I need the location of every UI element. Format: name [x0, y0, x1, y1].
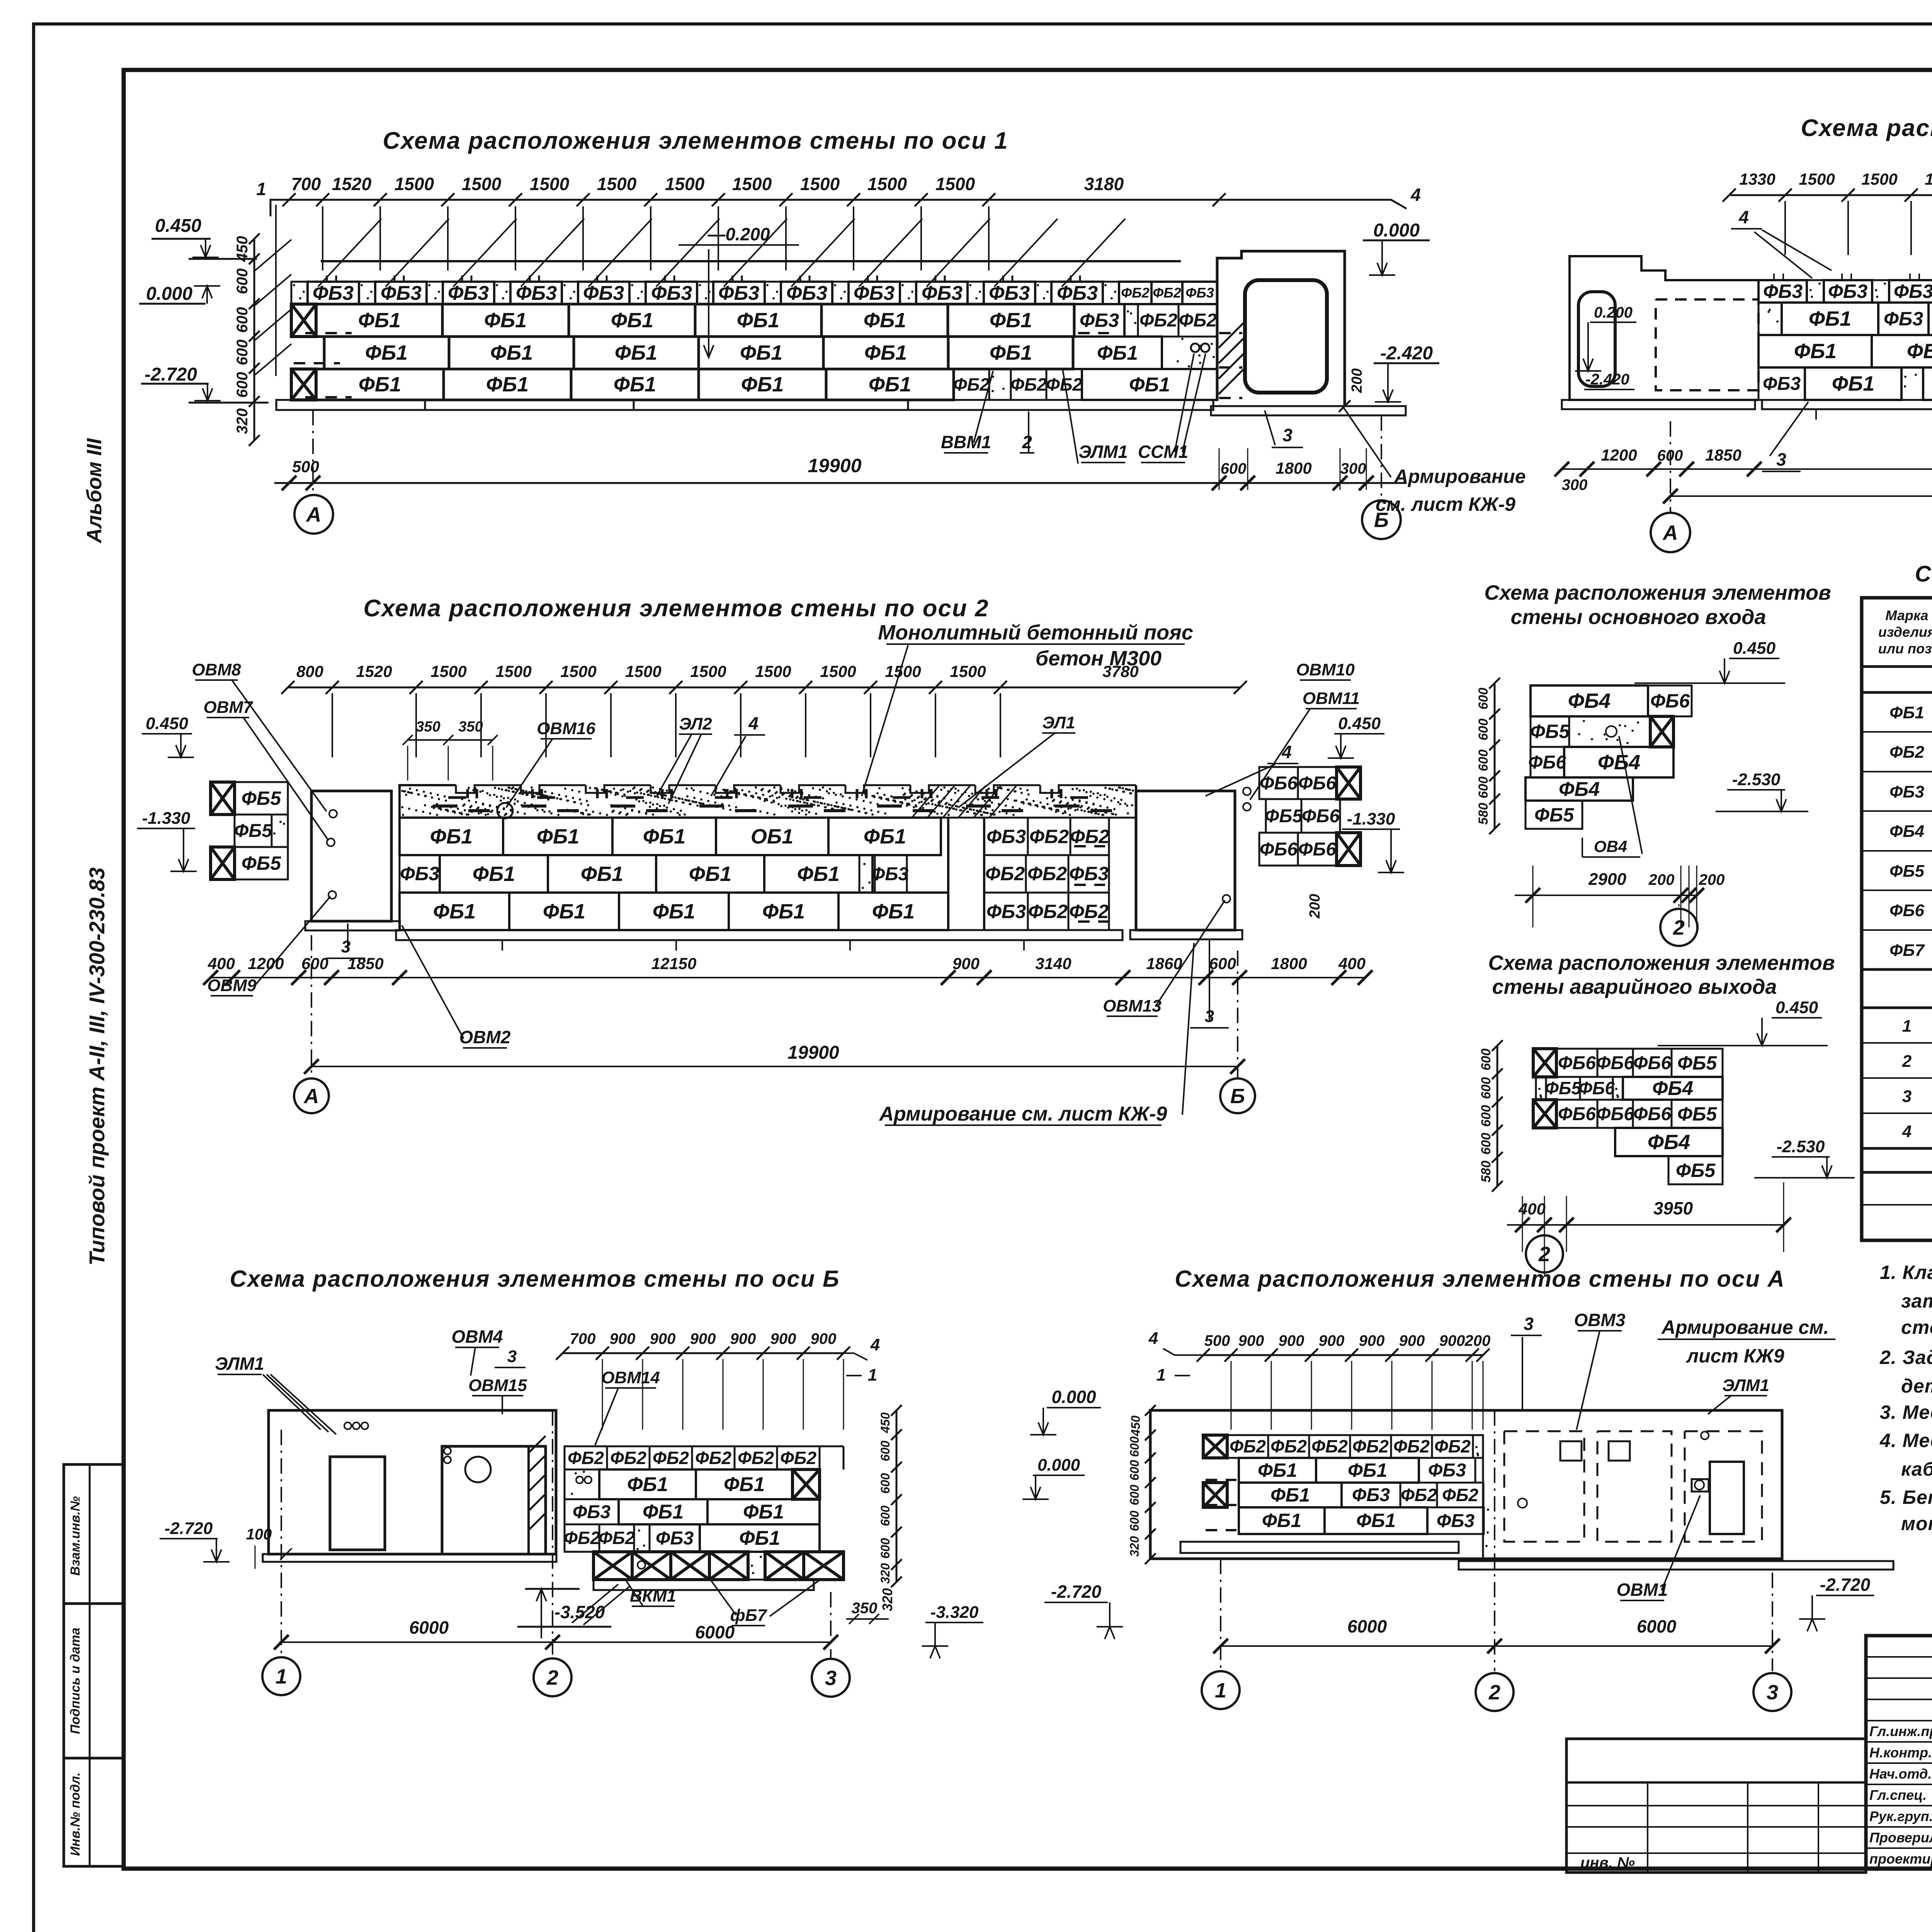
svg-text:500: 500: [292, 457, 319, 476]
svg-text:см. лист КЖ-9: см. лист КЖ-9: [1376, 493, 1515, 515]
axisA left ladder: [1150, 1410, 1151, 1559]
svg-text:ОВ4: ОВ4: [1594, 837, 1627, 855]
svg-text:200: 200: [1648, 871, 1675, 888]
emergency exit bottom dims: [1507, 1224, 1785, 1226]
svg-text:ЭЛМ1: ЭЛМ1: [1722, 1376, 1769, 1395]
svg-text:0.450: 0.450: [1338, 714, 1381, 733]
svg-text:2: 2: [1673, 916, 1685, 939]
svg-text:1520: 1520: [356, 662, 392, 680]
svg-text:Подпись и дата: Подпись и дата: [68, 1628, 83, 1734]
axis1 left ladder: [253, 239, 255, 440]
svg-text:ФБ5: ФБ5: [1265, 806, 1303, 827]
svg-text:ФБ3: ФБ3: [1894, 281, 1932, 302]
svg-text:ФБ2: ФБ2: [610, 1448, 646, 1468]
svg-text:ФБ3: ФБ3: [1057, 282, 1098, 304]
svg-text:ФБ2: ФБ2: [1069, 901, 1109, 922]
svg-text:350: 350: [416, 719, 440, 735]
svg-text:Гл.спец.: Гл.спец.: [1869, 1787, 1927, 1803]
svg-text:3: 3: [341, 937, 350, 956]
svg-text:ССМ1: ССМ1: [1138, 442, 1188, 462]
svg-text:320: 320: [1128, 1536, 1141, 1557]
svg-text:ФБ5: ФБ5: [241, 852, 281, 874]
svg-text:ФБ3: ФБ3: [854, 282, 895, 304]
svg-text:100: 100: [246, 1526, 272, 1543]
svg-text:ФБ3: ФБ3: [516, 282, 557, 304]
svg-text:кабелей через наружные: кабелей через наружные стены при привязк…: [1901, 1458, 1932, 1480]
svg-text:1500: 1500: [1799, 170, 1835, 188]
svg-text:320: 320: [878, 1563, 892, 1584]
svg-text:ФБ1: ФБ1: [1356, 1510, 1396, 1531]
svg-text:1520: 1520: [332, 174, 372, 194]
axis3 row A: [1759, 303, 1782, 335]
svg-text:ФБ5: ФБ5: [1677, 1103, 1717, 1125]
svg-text:1500: 1500: [800, 174, 840, 194]
table horizontals: [1862, 665, 1932, 668]
svg-text:Армирование см.: Армирование см.: [1661, 1316, 1829, 1338]
svg-text:ФБ2: ФБ2: [1311, 1436, 1348, 1456]
svg-text:3: 3: [507, 1347, 517, 1366]
svg-text:-2.720: -2.720: [1051, 1582, 1102, 1602]
svg-text:900: 900: [811, 1330, 837, 1347]
svg-text:ФБ3: ФБ3: [718, 282, 759, 304]
svg-text:ФБ3: ФБ3: [1884, 308, 1923, 330]
axis1 row B FB1 blocks: [324, 337, 449, 369]
svg-text:ФБ3: ФБ3: [656, 1528, 694, 1549]
svg-text:ФБ3: ФБ3: [1763, 374, 1801, 394]
svg-text:900: 900: [1399, 1332, 1425, 1349]
svg-text:ФБ5: ФБ5: [1889, 862, 1925, 881]
svg-text:1200: 1200: [248, 954, 284, 973]
axis3 left entrance structure plan: [1570, 256, 1759, 400]
svg-text:ЭЛМ1: ЭЛМ1: [215, 1354, 264, 1374]
axisB base line left: [263, 1554, 556, 1562]
svg-text:ФБ1: ФБ1: [864, 341, 907, 364]
svg-text:ФБ6: ФБ6: [1298, 839, 1336, 860]
svg-text:ФБ1: ФБ1: [473, 862, 515, 886]
axis1 axis mark 1 top-left: [270, 200, 289, 216]
svg-text:900: 900: [1319, 1332, 1345, 1349]
svg-text:0.000: 0.000: [146, 284, 192, 304]
svg-text:Спецификация элементов к схе: Спецификация элементов к схемам располож…: [1915, 561, 1932, 587]
svg-text:1. Кладка стен из сборных б: 1. Кладка стен из сборных блоков ведется…: [1880, 1262, 1932, 1283]
svg-text:Нач.отд.: Нач.отд.: [1869, 1766, 1932, 1782]
axis3 dim 19900: [1670, 495, 1932, 497]
svg-text:900: 900: [610, 1330, 636, 1347]
svg-text:900: 900: [1359, 1332, 1385, 1349]
svg-text:ФБ1: ФБ1: [797, 862, 840, 886]
svg-text:ФБ2: ФБ2: [1230, 1436, 1266, 1456]
axis1 right lower plate: [1211, 406, 1406, 415]
axis3 drop lines: [1784, 201, 1786, 255]
svg-text:ФБ1: ФБ1: [1832, 372, 1874, 395]
svg-text:2. Заделки по месту в стена: 2. Заделки по месту в стенах и отверстия…: [1879, 1347, 1932, 1368]
axis2 bottom dims: [211, 977, 1365, 978]
svg-text:900: 900: [1279, 1332, 1304, 1349]
svg-text:ФБ6: ФБ6: [1302, 806, 1340, 827]
svg-text:ФБ3: ФБ3: [448, 282, 489, 304]
axisA blocks: [1203, 1435, 1227, 1458]
svg-text:-1.330: -1.330: [1347, 810, 1395, 828]
svg-text:600: 600: [1479, 1133, 1493, 1155]
axis1 base plate: [276, 400, 1213, 410]
svg-text:1500: 1500: [495, 662, 531, 680]
svg-text:1500: 1500: [820, 662, 856, 680]
svg-text:ФБ3: ФБ3: [583, 282, 624, 304]
svg-text:ФБ1: ФБ1: [358, 309, 401, 332]
svg-text:ФБ3: ФБ3: [313, 282, 354, 304]
axis1 door opening right end: [1216, 261, 1219, 400]
svg-text:1860: 1860: [1146, 954, 1182, 973]
svg-text:320: 320: [879, 1588, 895, 1611]
svg-text:600: 600: [1476, 750, 1491, 772]
svg-text:ФБ1: ФБ1: [724, 1473, 765, 1496]
svg-text:1850: 1850: [1705, 446, 1741, 464]
svg-text:ЭЛ1: ЭЛ1: [1042, 713, 1075, 732]
belt hatched part: [912, 786, 939, 818]
svg-text:600: 600: [878, 1505, 892, 1526]
svg-text:ФБ1: ФБ1: [1348, 1459, 1387, 1481]
svg-text:ФБ4: ФБ4: [1648, 1131, 1690, 1154]
svg-text:ФБ2: ФБ2: [564, 1528, 600, 1548]
svg-text:ФБ1: ФБ1: [1097, 342, 1138, 364]
svg-text:600: 600: [234, 307, 251, 333]
axis2 row3: [400, 893, 509, 930]
svg-text:ОБ1: ОБ1: [751, 825, 793, 848]
svg-text:3: 3: [825, 1667, 837, 1690]
svg-text:4: 4: [870, 1335, 880, 1354]
belt dashes and vertical tick pairs: [433, 804, 457, 808]
svg-text:Армирование см. лист КЖ-9: Армирование см. лист КЖ-9: [879, 1103, 1167, 1125]
svg-text:ФБ1: ФБ1: [741, 373, 784, 396]
svg-text:ФБ2: ФБ2: [780, 1448, 816, 1468]
svg-text:ОВМ13: ОВМ13: [1103, 997, 1162, 1015]
svg-text:200: 200: [1349, 368, 1365, 393]
svg-text:800: 800: [296, 662, 323, 680]
axisA bottom dims 6000 6000: [1221, 1645, 1772, 1647]
axis1 hatch leaders: [318, 219, 381, 287]
svg-text:1: 1: [276, 1665, 287, 1688]
axis2 top dimension chain: [288, 687, 1240, 689]
svg-text:изделия: изделия: [1878, 624, 1932, 640]
svg-text:4: 4: [1738, 207, 1749, 227]
svg-text:2: 2: [1902, 1052, 1912, 1071]
axisA wall outline: [1150, 1410, 1782, 1559]
svg-text:ФБ3: ФБ3: [400, 863, 439, 884]
svg-text:ФБ1: ФБ1: [1129, 374, 1170, 396]
svg-text:ФБ5: ФБ5: [1677, 1052, 1717, 1074]
svg-text:3950: 3950: [1653, 1198, 1693, 1218]
svg-text:ОВМ10: ОВМ10: [1296, 660, 1355, 679]
svg-text:300: 300: [1562, 476, 1588, 493]
svg-text:ФБ3: ФБ3: [1352, 1485, 1390, 1505]
svg-text:3780: 3780: [1102, 662, 1138, 680]
svg-text:900: 900: [1238, 1332, 1264, 1349]
svg-text:ОВМ7: ОВМ7: [203, 698, 253, 717]
svg-text:-2.530: -2.530: [1732, 770, 1781, 789]
svg-text:1500: 1500: [935, 174, 975, 194]
svg-text:инв. №: инв. №: [1580, 1854, 1635, 1871]
svg-text:ФБ5: ФБ5: [241, 787, 281, 809]
svg-text:600: 600: [234, 340, 251, 366]
axis1 roof line: [321, 260, 1181, 262]
axisA axis bubbles 1 2 3: [1220, 1559, 1221, 1669]
svg-text:ФБ2: ФБ2: [985, 863, 1025, 884]
emergency exit axis bubble 2: [1526, 1235, 1563, 1272]
svg-text:ФБ3: ФБ3: [1763, 281, 1803, 302]
svg-text:ФБ1: ФБ1: [643, 825, 685, 848]
svg-text:1: 1: [1156, 1366, 1166, 1384]
svg-text:-2.420: -2.420: [1380, 343, 1433, 364]
svg-text:ФБ5: ФБ5: [234, 821, 272, 841]
axis2 small dims 350 350: [408, 739, 493, 741]
svg-text:1500: 1500: [560, 662, 596, 680]
axis1 axis mark 4 top-right: [1364, 200, 1406, 209]
svg-text:ВВМ1: ВВМ1: [941, 432, 991, 452]
svg-text:ФБ1: ФБ1: [1889, 703, 1924, 722]
svg-text:ФБ1: ФБ1: [433, 900, 476, 923]
svg-text:600: 600: [1128, 1436, 1141, 1457]
axis1 left hatch strokes: [275, 205, 277, 376]
svg-text:0.450: 0.450: [1776, 998, 1818, 1017]
svg-text:-2.720: -2.720: [1820, 1575, 1871, 1595]
svg-text:ФБ1: ФБ1: [1794, 340, 1837, 363]
svg-text:ФБ5: ФБ5: [1676, 1160, 1716, 1181]
svg-text:600: 600: [1476, 688, 1491, 710]
svg-text:ФБ2: ФБ2: [568, 1448, 604, 1468]
svg-text:ФБ1: ФБ1: [484, 309, 527, 332]
svg-text:1: 1: [1902, 1017, 1912, 1036]
svg-text:ФБ6: ФБ6: [1596, 1053, 1634, 1073]
svg-text:ФБ2: ФБ2: [1434, 1436, 1471, 1456]
axis1 top dimension chain: [289, 199, 1219, 201]
svg-text:2: 2: [1022, 432, 1032, 452]
svg-text:ФБ3: ФБ3: [989, 282, 1030, 304]
axis3 row C: [1759, 367, 1805, 400]
svg-text:2: 2: [546, 1666, 558, 1689]
svg-text:400: 400: [1338, 954, 1366, 973]
axisB hatched strip: [529, 1436, 546, 1453]
svg-text:350: 350: [458, 719, 483, 735]
svg-text:3. Места установки заклад: 3. Места установки закладных деталей и т…: [1880, 1401, 1932, 1423]
svg-text:ФБ1: ФБ1: [737, 309, 779, 332]
svg-text:ФБ3: ФБ3: [986, 901, 1026, 922]
svg-text:ФБ6: ФБ6: [1558, 1104, 1596, 1124]
svg-text:ФБ2: ФБ2: [1401, 1485, 1437, 1505]
svg-text:Схема расположения элементо: Схема расположения элементов стены по ос…: [383, 128, 1008, 154]
svg-text:Схема расположения элементо: Схема расположения элементов стены по ос…: [230, 1266, 840, 1292]
svg-text:Типовой проект А-II, III,: Типовой проект А-II, III, IV-300-230.83: [85, 867, 109, 1266]
svg-text:0.450: 0.450: [146, 714, 189, 733]
svg-text:-3.520: -3.520: [554, 1602, 605, 1622]
svg-text:ФБ2: ФБ2: [1121, 285, 1150, 301]
axis3 wall rows: [1759, 280, 1807, 303]
svg-text:0.200: 0.200: [1594, 304, 1633, 321]
svg-text:Н.контр.СС: Н.контр.СС: [1869, 1745, 1932, 1760]
axis3 label 3 leader: [1770, 402, 1808, 456]
svg-text:580: 580: [1476, 803, 1491, 825]
svg-text:3: 3: [1776, 449, 1786, 469]
svg-text:ФБ1: ФБ1: [1262, 1510, 1301, 1531]
svg-text:ФБ4: ФБ4: [1889, 822, 1924, 841]
svg-text:1500: 1500: [430, 662, 466, 680]
svg-text:лист КЖ9: лист КЖ9: [1686, 1345, 1784, 1367]
svg-text:ФБ1: ФБ1: [611, 309, 653, 332]
svg-text:ФБ2: ФБ2: [1029, 826, 1069, 847]
svg-text:1330: 1330: [1739, 170, 1775, 188]
axis2 left monolith entrance: [311, 791, 391, 921]
svg-text:ФБ6: ФБ6: [1528, 752, 1566, 773]
main entrance bottom dims: [1515, 895, 1697, 896]
svg-text:ФБ2: ФБ2: [1139, 310, 1177, 331]
axisB axis marks 4 and 1: [844, 1353, 867, 1360]
svg-text:ФБ2: ФБ2: [1270, 1436, 1307, 1456]
svg-text:ФБ1: ФБ1: [1258, 1459, 1297, 1481]
svg-text:А: А: [306, 503, 321, 526]
main entrance OV4 label: [1582, 856, 1640, 858]
axis2 row1: [400, 818, 503, 855]
svg-text:Проверил: Проверил: [1869, 1830, 1932, 1845]
svg-text:-2.530: -2.530: [1777, 1137, 1825, 1156]
svg-text:1500: 1500: [665, 174, 705, 194]
svg-text:ФБ4: ФБ4: [1568, 689, 1611, 713]
svg-text:А: А: [1662, 521, 1678, 544]
svg-text:1800: 1800: [1276, 459, 1311, 477]
svg-text:ФБ3: ФБ3: [1069, 863, 1109, 884]
specification table frame: [1862, 598, 1932, 1240]
axisA base plate left: [1180, 1542, 1459, 1553]
svg-text:0.000: 0.000: [1051, 1387, 1096, 1407]
svg-text:600: 600: [1128, 1460, 1141, 1481]
svg-text:ФБ1: ФБ1: [1809, 307, 1851, 330]
svg-text:600: 600: [1128, 1510, 1141, 1531]
svg-text:ФБ2: ФБ2: [1442, 1485, 1478, 1505]
axisB wall blocks right part: [565, 1469, 599, 1499]
svg-text:320: 320: [234, 408, 251, 434]
svg-text:3: 3: [1282, 425, 1293, 445]
svg-text:Армирование: Армирование: [1393, 466, 1526, 487]
axisA base plate right: [1459, 1561, 1893, 1570]
svg-text:—0.200: —0.200: [707, 224, 770, 244]
svg-text:600: 600: [878, 1538, 892, 1559]
svg-text:ФБ2: ФБ2: [1153, 285, 1181, 301]
svg-text:0.450: 0.450: [155, 216, 201, 236]
axisB monolith entrance walls: [269, 1410, 556, 1554]
svg-text:350: 350: [852, 1600, 878, 1617]
svg-text:А: А: [303, 1085, 319, 1108]
svg-text:600: 600: [1476, 777, 1491, 799]
svg-text:ФБ1: ФБ1: [537, 825, 579, 848]
svg-text:ФБ6: ФБ6: [1889, 901, 1925, 920]
svg-text:6000: 6000: [695, 1622, 735, 1642]
svg-text:ФБ3: ФБ3: [651, 282, 692, 304]
svg-text:600: 600: [1476, 719, 1491, 741]
svg-text:300: 300: [1340, 460, 1366, 477]
svg-text:ФБ1: ФБ1: [490, 341, 533, 364]
svg-text:19900: 19900: [808, 455, 861, 476]
svg-text:-2.720: -2.720: [145, 364, 197, 385]
svg-text:900: 900: [770, 1330, 796, 1347]
svg-text:4: 4: [748, 713, 759, 733]
main entrance left ladder: [1494, 683, 1496, 829]
svg-text:1: 1: [256, 179, 266, 199]
axis2 drop lines: [332, 693, 333, 757]
svg-text:ФБ3: ФБ3: [1437, 1511, 1475, 1531]
svg-text:ФБ1: ФБ1: [543, 900, 585, 923]
small bottom-left table: [1566, 1739, 1866, 1872]
svg-text:19900: 19900: [787, 1043, 839, 1063]
svg-text:-2.420: -2.420: [1585, 371, 1629, 388]
svg-text:Схема расположения элементов: Схема расположения элементов стены по ос…: [363, 595, 989, 622]
svg-text:ФБ3: ФБ3: [786, 282, 827, 304]
svg-text:6000: 6000: [1637, 1616, 1677, 1636]
title block main frame: [1866, 1636, 1932, 1869]
svg-text:ФБ1: ФБ1: [739, 1527, 780, 1549]
axis1 dashed joints to door: [1219, 332, 1242, 334]
svg-text:ФБ1: ФБ1: [614, 373, 656, 396]
svg-text:3: 3: [1767, 1681, 1778, 1704]
main entrance axis bubble 2: [1679, 904, 1680, 906]
svg-text:ФБ1: ФБ1: [872, 900, 915, 923]
svg-text:ФБ3: ФБ3: [573, 1502, 611, 1522]
svg-text:4: 4: [1148, 1329, 1158, 1348]
svg-text:Схема расположения элементов: Схема расположения элементов: [1488, 951, 1835, 975]
axisB lower base plate: [594, 1580, 814, 1590]
axis3 bottom dims: [1562, 468, 1754, 470]
svg-text:Инв.№ подл.: Инв.№ подл.: [68, 1772, 83, 1856]
svg-text:1500: 1500: [732, 174, 772, 194]
svg-text:ФБ3: ФБ3: [1185, 285, 1214, 301]
axis2 row2: [400, 855, 440, 893]
axis1 axis bubble A: [312, 410, 314, 495]
svg-text:ОВМ1: ОВМ1: [1617, 1580, 1668, 1600]
svg-text:600: 600: [878, 1473, 892, 1494]
svg-text:Рук.груп.: Рук.груп.: [1869, 1808, 1932, 1824]
svg-text:Марка: Марка: [1885, 607, 1928, 623]
svg-text:ФБ3: ФБ3: [1828, 281, 1867, 302]
svg-text:Схема расположения элементов: Схема расположения элементов стены по ос…: [1801, 115, 1932, 141]
svg-text:1: 1: [1215, 1679, 1226, 1702]
axis2 opening gap lines: [947, 818, 949, 930]
svg-text:Схема расположения элементов: Схема расположения элементов: [1484, 581, 1831, 604]
axis1 bottom dim 500 and 19900: [274, 482, 1406, 484]
svg-text:-1.330: -1.330: [142, 809, 190, 828]
svg-text:1800: 1800: [1271, 954, 1307, 973]
svg-text:3: 3: [1902, 1087, 1912, 1106]
axis2 right block stack: [1259, 767, 1298, 799]
svg-text:ФБ3: ФБ3: [986, 826, 1026, 847]
axis3 axis bubbles: [1670, 421, 1671, 513]
svg-text:580: 580: [1479, 1161, 1493, 1183]
svg-text:ФБ6: ФБ6: [1298, 773, 1336, 794]
svg-text:600: 600: [1128, 1485, 1141, 1505]
axisB bottom X row: [594, 1552, 632, 1580]
svg-text:ФБ1: ФБ1: [869, 373, 911, 396]
svg-text:600: 600: [1479, 1077, 1493, 1099]
svg-text:Б: Б: [1230, 1085, 1245, 1108]
svg-text:450: 450: [234, 236, 251, 262]
svg-text:4. Места прохода труб: 4. Места прохода труб отопления, водопро…: [1879, 1430, 1932, 1451]
svg-text:проектир.: проектир.: [1869, 1851, 1932, 1867]
svg-text:ОВМ3: ОВМ3: [1574, 1310, 1626, 1330]
axis3 top dimension chain: [1729, 194, 1932, 196]
axisA axis marks 4 1 left: [1163, 1349, 1203, 1355]
svg-text:ФБ1: ФБ1: [581, 862, 623, 886]
svg-text:700: 700: [570, 1330, 596, 1347]
svg-text:деталей труб забетонироват: деталей труб забетонировать бетоном М200…: [1901, 1375, 1932, 1397]
svg-text:ФБ4: ФБ4: [1598, 751, 1640, 774]
svg-text:450: 450: [1129, 1415, 1143, 1437]
axisB bottom dims 6000 6000: [279, 1641, 831, 1643]
